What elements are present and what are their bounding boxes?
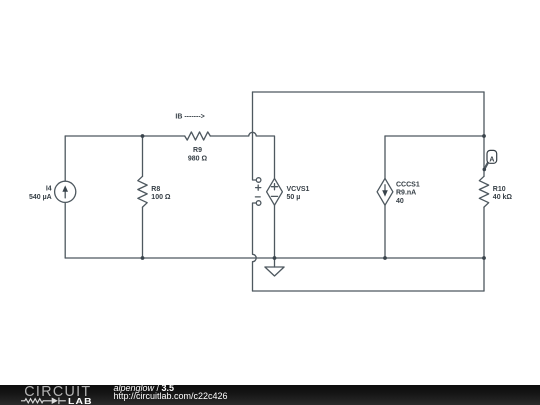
svg-text:R8: R8 — [151, 186, 160, 193]
wire left vertical from top rail to VCVS control + — [253, 92, 257, 180]
junction node VCVS ground — [273, 256, 277, 260]
ammeter flag A pointer — [484, 163, 488, 170]
VCVS1 control terminal - — [255, 197, 261, 205]
VCVS1 dependent voltage source — [267, 178, 283, 205]
wire I4 bottom lead — [64, 202, 66, 258]
footer bar — [0, 385, 540, 405]
wire lowest rail — [253, 290, 485, 292]
svg-text:CCCS1: CCCS1 — [396, 182, 420, 189]
svg-text:540 µA: 540 µA — [29, 194, 52, 201]
svg-text:40 kΩ: 40 kΩ — [493, 194, 513, 201]
svg-text:40: 40 — [396, 198, 404, 205]
wire CCCS1 top lead — [384, 136, 386, 178]
junction node R8 bottom — [141, 256, 145, 260]
current source I4 — [55, 181, 76, 202]
CircuitLab logo LAB — [68, 398, 93, 405]
svg-text:A: A — [489, 156, 494, 163]
wire R8 top lead — [142, 136, 144, 176]
junction node CCCS bottom — [383, 256, 387, 260]
wire CCCS1 bottom lead — [384, 205, 386, 258]
ground — [265, 267, 284, 276]
CCCS1 dependent current source — [377, 178, 393, 205]
wire right vertical lower (to lowest rail) — [483, 258, 485, 291]
CircuitLab logo schematic (resistor + diode) — [20, 395, 70, 405]
junction node R10 top — [482, 134, 486, 138]
svg-text:R10: R10 — [493, 186, 506, 193]
junction node R8 top — [141, 134, 145, 138]
resistor R9 — [185, 132, 211, 140]
wire R8 bottom lead — [142, 207, 144, 258]
svg-text:R9: R9 — [193, 147, 202, 154]
resistor R10 — [479, 176, 488, 207]
ammeter flag A box — [487, 150, 497, 163]
wire main horizontal I4 to R9 — [65, 135, 185, 137]
wire top rail — [253, 91, 485, 93]
svg-text:980 Ω: 980 Ω — [188, 155, 208, 162]
resistor R8 — [138, 176, 147, 207]
junction node R10 bottom — [482, 256, 486, 260]
wire R9 right with hop over vertical — [210, 132, 274, 178]
wire R10 bottom lead — [483, 207, 485, 258]
svg-text:IB ------->: IB -------> — [175, 113, 204, 120]
wire I4 branch top lead — [64, 136, 66, 181]
wire CCCS1 to R10 horizontal — [385, 135, 484, 137]
svg-text:50 µ: 50 µ — [287, 194, 301, 201]
svg-text:I4: I4 — [46, 185, 52, 192]
svg-text:R9.nA: R9.nA — [396, 190, 416, 197]
svg-text:100 Ω: 100 Ω — [151, 194, 171, 201]
url text — [114, 392, 228, 401]
wire VCVS control - down with hop over bottom rail — [253, 203, 257, 291]
wire ground stub — [274, 258, 276, 267]
title text — [114, 384, 175, 393]
junction node A flag attach — [483, 168, 487, 172]
VCVS1 control terminal + — [256, 178, 261, 191]
wire right vertical upper (top rail to R10) — [483, 92, 485, 176]
wire VCVS1 bottom lead — [274, 205, 276, 258]
wire bottom rail — [65, 257, 484, 259]
CircuitLab logo wordmark — [24, 385, 91, 399]
svg-text:VCVS1: VCVS1 — [287, 186, 310, 193]
